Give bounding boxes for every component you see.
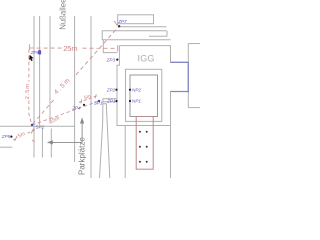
wire path line lower right: [170, 126, 172, 179]
wire street Nussallee edge 3 lower: [50, 129, 52, 158]
node IGG inner rect 1: [126, 69, 162, 121]
svg-text:Nußallee: Nußallee: [58, 0, 67, 30]
node arrow left: [51, 141, 82, 143]
node point NP1: [129, 100, 131, 102]
node point ZP3: [116, 59, 118, 61]
svg-text:ZP2: ZP2: [106, 87, 116, 92]
wire dim 5m upper: [79, 96, 98, 103]
wire main line SP2-SP1: [32, 101, 99, 125]
node point ZP7: [118, 25, 120, 27]
survey point dots black: [10, 25, 131, 138]
wire wall step near ZP3: [103, 40, 117, 53]
wire street Nussallee edge 3 upper: [49, 16, 51, 124]
wire top connector left: [101, 31, 103, 40]
node arrow up: [48, 119, 83, 144]
wire street Nussallee edge 5: [90, 16, 92, 178]
node point SP1 blue: [98, 100, 100, 102]
node point ZP5: [10, 136, 12, 138]
wire blue measured walls: [170, 62, 188, 91]
node right building: [188, 44, 200, 108]
wire top connector D: [166, 31, 168, 37]
node annex red rectangle: [136, 117, 153, 170]
svg-text:ZP7: ZP7: [117, 19, 127, 24]
svg-text:ZP3: ZP3: [106, 58, 116, 63]
wire wall east: [103, 104, 110, 178]
red measurement lines: [13, 21, 118, 142]
svg-text:IGG: IGG: [138, 54, 155, 64]
node ZP6 highlight: [38, 50, 41, 54]
node IGG building outline: [119, 46, 170, 63]
svg-text:2.5m: 2.5m: [25, 83, 31, 99]
wire top horizontal D: [149, 35, 167, 37]
node point SP2 blue: [31, 124, 33, 126]
wire street Nussallee edge 4: [74, 16, 76, 162]
svg-text:ZP5: ZP5: [1, 134, 11, 139]
svg-text:SP2: SP2: [36, 124, 45, 129]
svg-text:ZP1: ZP1: [106, 99, 116, 104]
svg-text:NP1: NP1: [132, 99, 141, 104]
node annex dots: [139, 131, 148, 163]
node cursor arrow: [29, 55, 33, 61]
svg-text:SP1: SP1: [94, 101, 103, 106]
blue point labels: [1, 19, 142, 139]
svg-text:Parkplätze: Parkplätze: [78, 137, 87, 175]
wire cross street south edge: [0, 146, 12, 148]
wire street Nussallee edge 2 lower: [41, 129, 43, 158]
svg-text:NP2: NP2: [132, 87, 141, 92]
wire path line lower: [124, 126, 126, 178]
svg-text:ZP4: ZP4: [71, 106, 81, 111]
node point ZP4: [83, 104, 85, 106]
wire cross street bottom: [0, 125, 75, 127]
wire top horizontal B: [102, 30, 166, 32]
node U-rect top structure: [118, 15, 154, 24]
wire wall corner horizontal upper: [103, 98, 117, 100]
wire top horizontal A: [120, 26, 167, 28]
red dimension labels: [17, 44, 91, 140]
svg-text:ZP6: ZP6: [30, 50, 40, 55]
wire wall west: [100, 99, 103, 178]
node point NP2: [129, 89, 131, 91]
wire dim 2.5m vertical line: [28, 50, 30, 82]
node point ZP2: [115, 89, 117, 91]
node IGG inner rect 2: [130, 75, 158, 117]
wire street Nussallee edge 2 upper: [39, 16, 41, 125]
svg-text:25m: 25m: [63, 44, 77, 53]
wire top horizontal C: [102, 39, 171, 41]
wire dim 4.5m diagonal: [33, 100, 55, 124]
node point ZP1: [115, 100, 117, 102]
wire street Nussallee edge 1: [33, 16, 35, 158]
wire dim 5m lower: [13, 138, 17, 140]
wire wall corner horizontal: [103, 101, 117, 103]
wire dim 25m line: [30, 47, 63, 49]
